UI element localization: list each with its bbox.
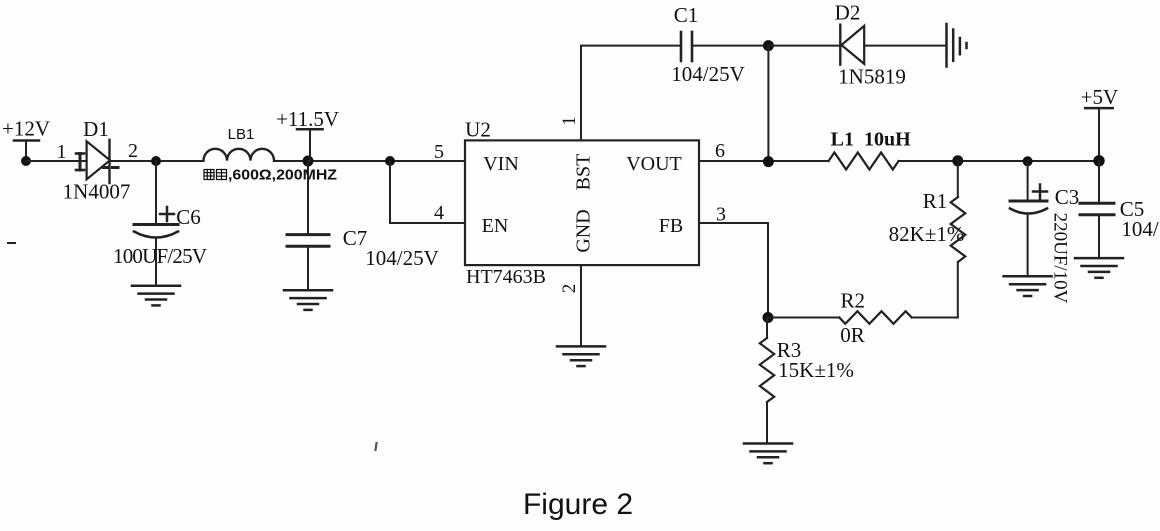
capacitor C7 xyxy=(287,161,329,290)
wire xyxy=(274,160,465,162)
wire xyxy=(864,45,946,47)
svg-text:L1 10uH: L1 10uH xyxy=(831,129,911,151)
svg-text:82K±1%: 82K±1% xyxy=(889,222,965,246)
svg-text:U2: U2 xyxy=(465,118,491,142)
wire xyxy=(899,160,1099,162)
svg-text:C6: C6 xyxy=(176,205,201,229)
resistor R1 xyxy=(951,161,966,318)
wire down to VOUT rail xyxy=(767,46,769,162)
svg-text:R2: R2 xyxy=(840,289,865,313)
svg-text:EN: EN xyxy=(482,215,509,237)
wire EN drop xyxy=(390,161,465,223)
inductor L1 xyxy=(829,153,899,170)
wire xyxy=(110,160,204,162)
svg-text:HT7463B: HT7463B xyxy=(466,266,546,288)
ground U2 pin 2 xyxy=(557,346,605,366)
wire xyxy=(768,45,840,47)
wire VOUT xyxy=(699,160,829,162)
svg-text:4: 4 xyxy=(434,202,444,224)
capacitor C1 xyxy=(681,32,692,61)
ground C3 xyxy=(1004,276,1052,296)
power +5V xyxy=(1081,85,1119,161)
stray tick mark xyxy=(376,443,377,450)
svg-text:2: 2 xyxy=(559,284,580,294)
svg-text:VIN: VIN xyxy=(483,153,519,175)
svg-text:+12V: +12V xyxy=(2,117,50,141)
svg-text:C3: C3 xyxy=(1055,185,1080,209)
svg-text:LB1: LB1 xyxy=(228,126,255,143)
ground C6 xyxy=(132,286,180,306)
svg-text:+11.5V: +11.5V xyxy=(276,107,339,131)
node L1/R1 xyxy=(952,155,963,166)
stray minus mark xyxy=(8,242,15,244)
value 磁珠,600Ω,200MHZ xyxy=(204,167,337,184)
power +12V xyxy=(2,117,50,162)
svg-text:BST: BST xyxy=(573,154,595,191)
svg-text:C1: C1 xyxy=(674,3,699,27)
node +12V input xyxy=(21,156,31,166)
svg-text:104/: 104/ xyxy=(1121,217,1159,241)
svg-text:6: 6 xyxy=(715,140,725,162)
svg-text:D2: D2 xyxy=(835,1,861,25)
svg-text:104/25V: 104/25V xyxy=(365,246,439,270)
svg-text:104/25V: 104/25V xyxy=(671,62,745,86)
node FB/R2/R3 xyxy=(763,312,774,323)
resistor R2 xyxy=(768,311,958,324)
wire GND pin xyxy=(580,265,582,346)
node +11.5V / C7 xyxy=(303,156,314,167)
diode D1 xyxy=(76,140,118,183)
svg-text:R1: R1 xyxy=(923,189,948,213)
ground R3 xyxy=(744,444,792,464)
svg-text:+5V: +5V xyxy=(1081,85,1119,109)
resistor R3 xyxy=(760,318,774,444)
svg-text:Figure 2: Figure 2 xyxy=(523,488,633,521)
op-amp U2 HT7463B box xyxy=(465,140,699,265)
capacitor C5 xyxy=(1080,161,1114,258)
svg-text:2: 2 xyxy=(128,140,138,162)
svg-text:D1: D1 xyxy=(83,117,109,141)
svg-text:,600Ω,200MHZ: ,600Ω,200MHZ xyxy=(228,167,337,184)
wire FB xyxy=(699,223,768,318)
diode D2 xyxy=(840,25,864,65)
node VOUT/C1 drop xyxy=(763,156,774,167)
wire xyxy=(26,160,87,162)
power +11.5V xyxy=(276,107,339,161)
ground (rotated, D2) xyxy=(947,24,967,67)
svg-text:1N4007: 1N4007 xyxy=(63,180,131,204)
svg-text:5: 5 xyxy=(434,141,444,163)
capacitor C3 xyxy=(1010,161,1047,276)
ground C7 xyxy=(284,290,332,310)
inductor LB1 xyxy=(204,149,275,161)
svg-text:VOUT: VOUT xyxy=(626,153,682,175)
svg-text:C7: C7 xyxy=(343,226,368,250)
capacitor C6 xyxy=(134,161,178,286)
svg-text:1: 1 xyxy=(57,141,67,163)
node D1 cathode / C6 xyxy=(151,156,161,166)
svg-text:FB: FB xyxy=(659,215,683,237)
svg-text:220UF/10V: 220UF/10V xyxy=(1050,213,1071,304)
svg-text:100UF/25V: 100UF/25V xyxy=(113,244,207,268)
wire BST pin xyxy=(581,46,681,141)
ground C5 xyxy=(1075,258,1123,278)
svg-text:0R: 0R xyxy=(840,323,865,347)
svg-text:15K±1%: 15K±1% xyxy=(778,358,854,382)
node C1/D2 junction xyxy=(763,40,774,51)
node C3 tap xyxy=(1023,156,1033,166)
svg-text:1: 1 xyxy=(559,116,580,126)
node EN tap xyxy=(385,156,395,166)
node +5V / C5 xyxy=(1093,155,1104,166)
svg-text:1N5819: 1N5819 xyxy=(838,65,906,89)
svg-text:GND: GND xyxy=(573,209,595,252)
wire xyxy=(692,45,768,47)
